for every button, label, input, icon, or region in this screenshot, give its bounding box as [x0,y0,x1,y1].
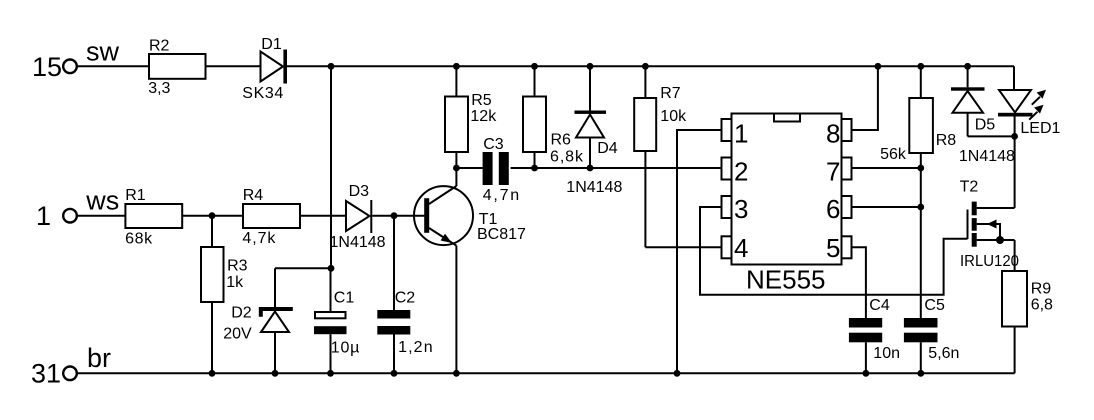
node junction pin6/R8 [917,204,924,211]
diode D4 [575,66,607,168]
wire [456,167,482,169]
node junction C1 [328,265,335,272]
svg-text:NE555: NE555 [746,264,826,294]
zener diode D2 [259,268,293,373]
node junction D2 gnd [272,370,279,377]
svg-text:sw: sw [86,36,120,66]
wire [77,65,149,67]
svg-text:31: 31 [31,359,61,389]
svg-text:C3: C3 [483,136,504,153]
svg-text:6,8k: 6,8k [550,148,584,165]
svg-text:LED1: LED1 [1020,120,1060,137]
wire rail corner to LED1 [1013,66,1015,90]
svg-text:BC817: BC817 [477,226,526,243]
svg-text:D1: D1 [261,36,282,53]
node junction pin1 gnd [674,370,681,377]
wire [206,65,261,67]
node junction C2 gnd [391,370,398,377]
svg-text:D2: D2 [231,305,252,322]
resistor R8 [909,66,933,318]
svg-text:56k: 56k [880,146,907,163]
resistor R9 [1002,271,1027,373]
node junction C2 [391,212,398,219]
resistor R3 [201,216,224,374]
svg-text:R1: R1 [125,187,146,204]
node junction R8 [917,63,924,70]
svg-text:R6: R6 [551,132,572,149]
diode D3 [346,200,371,233]
wire pin7 [852,167,921,169]
svg-text:R2: R2 [149,37,170,54]
svg-text:T2: T2 [960,178,979,195]
diode D5 [951,66,985,136]
svg-text:D5: D5 [975,117,996,134]
wire top rail [287,65,1014,67]
node junction pin8 [875,63,882,70]
node junction R7 [642,63,649,70]
wire D5 anode to LED line [968,135,1015,137]
svg-text:68k: 68k [125,231,153,248]
svg-text:IRLU120: IRLU120 [960,253,1019,270]
resistor R1 [125,204,182,228]
capacitor C3 [483,152,509,185]
svg-text:1N4148: 1N4148 [330,234,386,251]
svg-text:1,2n: 1,2n [398,339,433,356]
svg-text:ws: ws [85,185,119,215]
node junction D1 [328,63,335,70]
wire pin5 to C4 [852,247,866,318]
svg-text:10µ: 10µ [331,339,360,356]
capacitor C2 [377,216,410,374]
svg-text:1N4148: 1N4148 [959,148,1015,165]
node junction C1 gnd [327,370,334,377]
svg-text:4,7k: 4,7k [242,230,276,247]
node junction collector/R5/C3 [453,165,460,172]
capacitor C4 [849,318,882,373]
svg-text:10k: 10k [660,108,687,125]
svg-text:2: 2 [734,156,748,186]
node junction R3 gnd [209,370,216,377]
node junction R6 [531,63,538,70]
wire pin3 to T2 gate [700,207,968,295]
wire [275,267,331,269]
svg-text:C2: C2 [395,289,416,306]
wire [372,215,426,217]
svg-text:4: 4 [734,233,748,263]
node junction T1 emitter gnd [453,370,460,377]
svg-text:C5: C5 [924,297,945,314]
node junction R6/C3 [531,165,538,172]
svg-text:br: br [87,343,111,373]
svg-text:R3: R3 [227,258,248,275]
wire R7 to pin4 [645,246,721,248]
resistor R4 [243,204,300,228]
svg-text:R5: R5 [471,92,492,109]
svg-text:4,7n: 4,7n [483,187,520,204]
svg-text:R8: R8 [936,132,957,149]
resistor R6 [523,66,546,168]
transistor T1 [414,168,473,373]
svg-text:1: 1 [36,201,51,231]
node junction D5/LED1 [1011,133,1018,140]
wire vertical from D1 node [330,66,332,268]
terminal 15 [63,60,77,74]
svg-text:SK34: SK34 [242,85,283,102]
node junction pin7/R8 [917,165,924,172]
wire [300,215,346,217]
node junction D5 [964,63,971,70]
resistor R7 [634,66,656,247]
svg-text:C1: C1 [334,289,355,306]
svg-text:12k: 12k [470,108,497,125]
node junction C4 gnd [863,370,870,377]
node junction R5 [453,63,460,70]
wire pin1 to ground [677,130,722,373]
svg-text:C4: C4 [869,297,890,314]
svg-text:1: 1 [734,118,748,148]
diode D1 [261,50,288,84]
svg-text:R4: R4 [243,187,264,204]
svg-text:10n: 10n [873,345,900,362]
terminal 1 [63,209,77,223]
svg-text:6,8: 6,8 [1031,297,1053,314]
svg-text:5,6n: 5,6n [928,345,959,362]
node junction D4 [587,63,594,70]
svg-text:6: 6 [826,194,840,224]
wire pin6 [852,206,921,208]
svg-text:D4: D4 [597,140,618,157]
svg-text:R9: R9 [1031,280,1052,297]
svg-text:8: 8 [826,118,840,148]
svg-text:3,3: 3,3 [148,80,170,97]
wire pin8 to rail [852,66,878,130]
capacitor C5 [904,318,938,373]
resistor R5 [445,66,468,168]
op-amp NE555 U1 [722,114,852,265]
wire [77,215,126,217]
wire [182,215,243,217]
svg-text:7: 7 [826,156,840,186]
svg-text:5: 5 [826,233,840,263]
transistor T2 MOSFET [968,202,1015,271]
wire bottom rail [77,372,1015,374]
svg-text:R7: R7 [660,85,681,102]
node junction C5 gnd [917,370,924,377]
svg-text:D3: D3 [349,183,370,200]
svg-text:15: 15 [32,52,62,82]
svg-text:3: 3 [734,194,748,224]
svg-text:1N4148: 1N4148 [566,179,622,196]
LED LED1 [998,90,1046,208]
capacitor C1 [314,268,347,373]
wire to pin2 [511,167,722,169]
node junction R3 [209,212,216,219]
svg-text:1k: 1k [226,274,244,291]
resistor R2 [149,54,206,79]
terminal 31 [63,367,77,381]
node junction D4 bottom [587,165,594,172]
svg-text:20V: 20V [223,326,252,343]
